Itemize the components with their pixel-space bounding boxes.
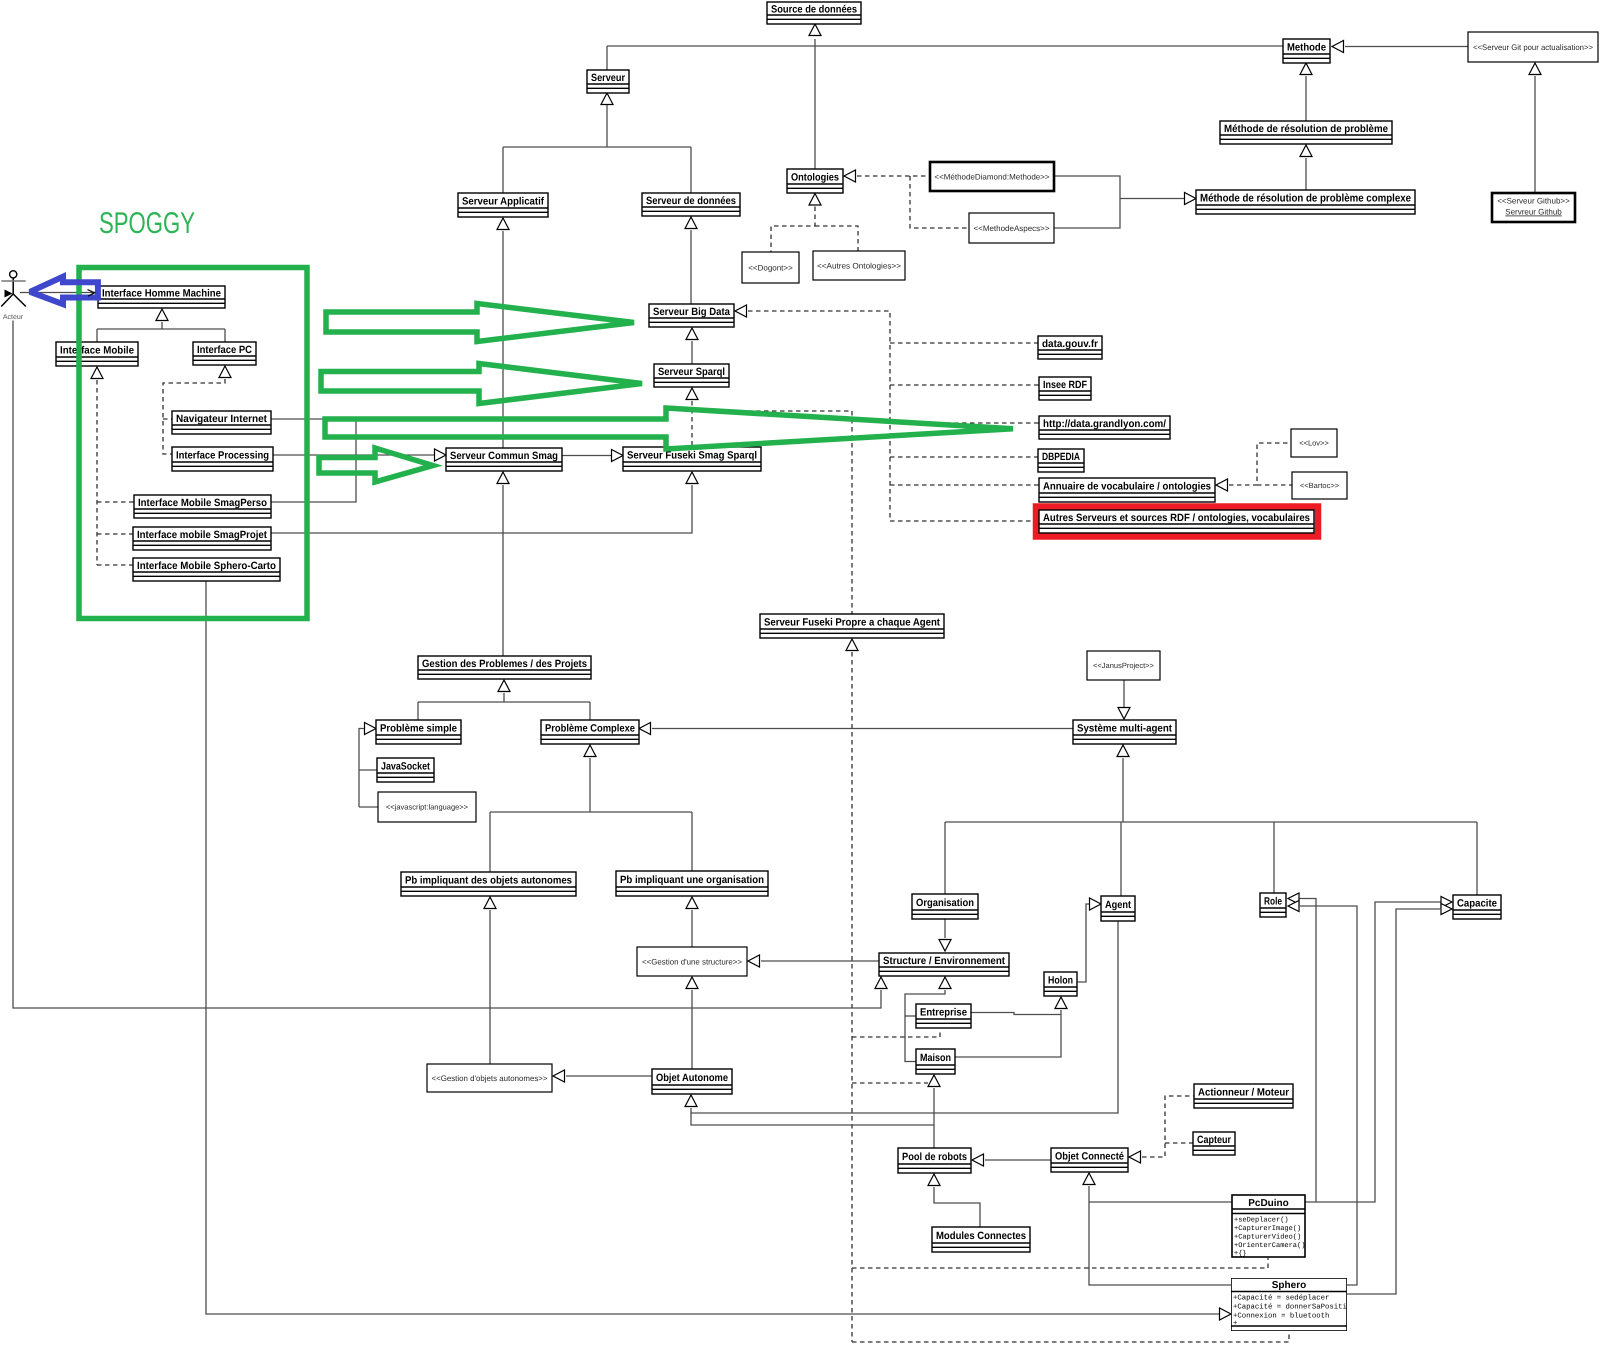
class Pb impliquant des objets autonomes (401, 872, 576, 896)
wire pbsimple-javasocket (359, 769, 377, 771)
svg-text:Serveur de données: Serveur de données (646, 195, 736, 207)
wire org-structure (944, 919, 946, 938)
wire dash-entreprise (852, 1029, 940, 1037)
svg-text:Organisation: Organisation (916, 897, 974, 909)
class Maison (916, 1049, 955, 1074)
wire gestion-bus4 (589, 702, 591, 720)
wire objautonome-gestobj (566, 1075, 652, 1077)
class Entreprise (916, 1004, 971, 1028)
svg-text:Interface Processing: Interface Processing (176, 449, 269, 461)
wire gestion-bus3 (417, 702, 419, 720)
box MéthodeDiamond (930, 162, 1054, 191)
class Source de données (767, 2, 861, 24)
svg-text:+{}: +{} (1234, 1249, 1247, 1258)
wire annuaire-bartoc (1257, 484, 1292, 486)
arrowhead at Agent left (1090, 898, 1102, 910)
arrowhead at Sphero left (1220, 1308, 1232, 1320)
wire gestion-bus (503, 693, 505, 702)
arrowhead at MRPC left (1185, 193, 1197, 205)
arrowhead at Gestion objets right (553, 1070, 565, 1082)
svg-text:Interface PC: Interface PC (197, 344, 252, 356)
svg-text:+Connexion = bluetooth: +Connexion = bluetooth (1233, 1312, 1329, 1321)
arrowhead under Ontologies (809, 194, 821, 206)
class Autres Serveurs (1039, 510, 1314, 533)
wire entmaison-structure (905, 990, 945, 1062)
svg-text:+: + (1233, 1320, 1237, 1328)
svg-text:Serveur: Serveur (591, 72, 625, 84)
wire acteur-structure (13, 321, 881, 1009)
wire objconn-dash (1142, 1096, 1194, 1157)
arrowhead under Holon (1055, 997, 1067, 1009)
wire gestion-up (502, 485, 504, 656)
class Capteur (1193, 1132, 1235, 1155)
svg-text:<<Gestion d'objets autonomes>>: <<Gestion d'objets autonomes>> (432, 1074, 548, 1083)
svg-text:<<Autres Ontologies>>: <<Autres Ontologies>> (817, 261, 901, 270)
class http grandlyon (1039, 416, 1170, 439)
arrowhead under Pb organisation (686, 897, 698, 909)
class PcDuino (1232, 1195, 1305, 1258)
class Serveur Sparql (654, 364, 729, 387)
arrowhead under Serveur Big Data (686, 328, 698, 340)
svg-text:Serveur Sparql: Serveur Sparql (658, 366, 725, 378)
wire fusekipropre-down (851, 652, 853, 1342)
arrowhead at Objet Connecté right (1129, 1151, 1141, 1163)
svg-text:Ontologies: Ontologies (791, 171, 839, 183)
svg-text:<<Dogont>>: <<Dogont>> (748, 263, 793, 272)
wire pool-objautonome (691, 1113, 934, 1125)
wire serveur-up (606, 46, 608, 70)
arrowhead at Problème simple left (365, 723, 377, 735)
wire im-smagperso (97, 501, 134, 503)
arrowhead under Gestion structure (686, 977, 698, 989)
box Bartoc (1292, 472, 1347, 499)
wire agent-objautonome (691, 921, 1118, 1113)
svg-text:Pb impliquant des objets auton: Pb impliquant des objets autonomes (405, 874, 572, 886)
wire im-smagprojet (97, 533, 133, 535)
box javascript language (378, 792, 476, 822)
svg-text:<<javascript:language>>: <<javascript:language>> (386, 803, 469, 812)
wire sdd-bigdata (690, 230, 692, 304)
wire serveur-down (606, 105, 608, 147)
green arrow to Serveur Sparql (321, 364, 642, 404)
class Serveur de données (642, 193, 740, 216)
wire fuseki-sparql-dash (691, 401, 693, 447)
arrowhead at Capacite left 1 (1441, 897, 1452, 908)
class Ontologies (787, 169, 843, 193)
svg-text:Objet Connecté: Objet Connecté (1055, 1150, 1124, 1162)
box Gestion une structure (637, 947, 747, 976)
class Methode (1283, 39, 1330, 63)
svg-text:Navigateur Internet: Navigateur Internet (176, 413, 267, 425)
wire pbc-bus3 (489, 812, 491, 872)
wire communsmag-fuseki (562, 455, 611, 457)
wire pcduino-objconn (1089, 1186, 1231, 1285)
green arrow to Serveur Big Data (326, 304, 634, 342)
wire pcduino-objconn2 (1089, 1201, 1232, 1203)
wire ihm-bus2 (97, 328, 225, 330)
svg-text:Maison: Maison (920, 1052, 951, 1064)
arrowhead at Role right 2 (1288, 901, 1299, 912)
arrowhead under MRP (1300, 145, 1312, 157)
class Pool de robots (898, 1148, 971, 1173)
class Serveur Fuseki Propre a chaque Agent (760, 614, 944, 638)
svg-text:Methode: Methode (1287, 41, 1326, 53)
arrowhead under Maison (928, 1075, 940, 1087)
wire spherocarto-sphero (206, 581, 1219, 1314)
svg-text:Gestion des Problemes / des Pr: Gestion des Problemes / des Projets (422, 658, 587, 670)
actor Acteur (1, 271, 26, 321)
class DBPEDIA (1038, 449, 1084, 472)
svg-text:data.gouv.fr: data.gouv.fr (1042, 338, 1098, 350)
arrowhead under Gestion des Problemes (498, 680, 510, 692)
wire md-right (1054, 176, 1120, 228)
class Système multi-agent (1073, 720, 1176, 744)
svg-text:Autres Serveurs et sources RDF: Autres Serveurs et sources RDF / ontolog… (1043, 512, 1310, 524)
green arrow to Serveur Commun Smag (319, 448, 433, 482)
wire navigateur-right (271, 419, 356, 502)
class Serveur (587, 70, 629, 93)
class Serveur Commun Smag (446, 448, 562, 471)
wire processing-communsmag (273, 454, 434, 456)
arrowhead at Serveur Big Data right (735, 305, 747, 317)
svg-text:<<Gestion d'une structure>>: <<Gestion d'une structure>> (642, 957, 742, 966)
arrowhead under Structure left (875, 977, 887, 989)
wire holon-vert (955, 1010, 1061, 1057)
svg-text:<<Serveur Github>>: <<Serveur Github>> (1497, 197, 1570, 206)
wire sma-bus (1122, 758, 1124, 822)
wire pbsimple-left (359, 729, 364, 808)
wire ontologies-up (814, 46, 816, 169)
class Actionneur / Moteur (1194, 1084, 1293, 1108)
wire sma-bus2 (945, 821, 1477, 823)
box MethodeAspecs (969, 213, 1054, 243)
svg-text:Servreur Github: Servreur Github (1505, 208, 1562, 217)
wire ont-md-dash2 (910, 176, 969, 228)
arrowhead under Serveur de données (685, 217, 697, 229)
wire dash-dbpedia (890, 456, 1038, 458)
wire bigdata-dashbus (748, 311, 890, 521)
arrowhead at Role right 1 (1288, 893, 1299, 904)
arrowhead to Source de données (809, 24, 821, 36)
svg-text:Modules Connectes: Modules Connectes (936, 1230, 1026, 1242)
wire annuaire-lov (1229, 443, 1291, 485)
wire bus-sources (607, 45, 1283, 47)
svg-text:Agent: Agent (1105, 899, 1131, 911)
class Serveur Big Data (649, 304, 734, 327)
wire fusekipropre-dash (692, 411, 852, 614)
class Objet Autonome (652, 1069, 732, 1094)
arrowhead under Serveur Commun Smag (497, 472, 509, 484)
svg-text:Serveur Commun Smag: Serveur Commun Smag (450, 450, 558, 462)
wire bus-serveur (503, 146, 691, 148)
wire ihm-bus4 (224, 329, 226, 342)
wire gestion-bus2 (418, 701, 590, 703)
red highlight rectangle (1036, 507, 1318, 537)
arrowhead at Capacite left 2 (1441, 904, 1452, 915)
arrowhead under Interface Mobile (91, 367, 103, 379)
arrowhead at Ontologies right (844, 170, 856, 182)
class Capacite (1453, 895, 1501, 919)
arrowhead under Serveur Applicatif (497, 218, 509, 230)
class Interface Mobile SmagPerso (134, 495, 271, 518)
wire im-dash (96, 380, 98, 565)
arrowhead under Problème Complexe (584, 745, 596, 757)
class Interface Mobile Sphero-Carto (133, 558, 280, 581)
class Role (1260, 893, 1286, 917)
svg-text:Problème simple: Problème simple (380, 722, 457, 734)
svg-text:+Capacité = donnerSaPosition: +Capacité = donnerSaPosition (1233, 1303, 1356, 1312)
class Modules Connectes (932, 1227, 1030, 1252)
wire sma-capacite (1476, 822, 1478, 895)
class Structure / Environnement (879, 953, 1009, 976)
svg-text:Interface Mobile SmagPerso: Interface Mobile SmagPerso (138, 497, 267, 509)
svg-text:<<JanusProject>>: <<JanusProject>> (1093, 661, 1154, 670)
class Interface Processing (172, 447, 273, 471)
arrowhead at Problème Complexe right (639, 723, 651, 735)
svg-text:Insee RDF: Insee RDF (1043, 379, 1087, 391)
svg-text:Structure / Environnement: Structure / Environnement (883, 955, 1005, 967)
svg-text:Role: Role (1264, 895, 1282, 907)
arrowhead under Pool de robots (928, 1174, 940, 1186)
wire pborg-geststruct (691, 910, 693, 947)
svg-text:Sphero: Sphero (1272, 1280, 1306, 1291)
arrowhead under Interface PC (219, 366, 231, 378)
class Pb impliquant une organisation (616, 871, 768, 896)
arrowhead under Objet Connecté (1083, 1173, 1095, 1185)
svg-text:Serveur Fuseki Smag Sparql: Serveur Fuseki Smag Sparql (627, 449, 757, 461)
wire dash-autres (890, 520, 1034, 522)
arrowhead under Serveur (601, 93, 613, 105)
class Problème Complexe (541, 720, 639, 744)
class Interface Mobile (56, 342, 138, 366)
wire bus-serveur3 (690, 147, 692, 193)
svg-text:JavaSocket: JavaSocket (381, 760, 430, 772)
svg-text:Méthode de résolution de probl: Méthode de résolution de problème comple… (1200, 193, 1411, 205)
wire dash-grandlyon (890, 422, 1039, 424)
wire dash-sphero (852, 1332, 1289, 1342)
class Agent (1101, 896, 1135, 921)
wire entreprise-structure (905, 1015, 916, 1017)
wire mrpc-up (1305, 158, 1307, 190)
class Interface PC (193, 342, 256, 365)
wire pbc-bus2 (490, 811, 692, 813)
svg-text:Pool de robots: Pool de robots (902, 1151, 967, 1163)
arrowhead at Serveur Commun Smag left (435, 449, 447, 461)
svg-text:http://data.grandlyon.com/: http://data.grandlyon.com/ (1043, 418, 1166, 430)
wire ont-md-dash (857, 175, 930, 177)
class data.gouv.fr (1038, 336, 1102, 359)
box Gestion objets autonomes (427, 1064, 552, 1092)
arrowhead under Methode (1300, 63, 1312, 75)
svg-text:Problème Complexe: Problème Complexe (545, 722, 635, 734)
svg-text:<<MéthodeDiamond:Methode>>: <<MéthodeDiamond:Methode>> (934, 172, 1050, 181)
arrowhead under Serveur Sparql (686, 388, 698, 400)
class Navigateur Internet (172, 411, 271, 434)
svg-text:+Capacité = sedéplacer: +Capacité = sedéplacer (1233, 1294, 1329, 1303)
wire sma-role (1273, 822, 1275, 893)
svg-text:<<Bartoc>>: <<Bartoc>> (1300, 481, 1340, 490)
svg-text:Source de données: Source de données (771, 3, 857, 15)
box Lov (1291, 429, 1337, 457)
arrowhead at Serveur Fuseki Smag left (612, 450, 624, 462)
svg-text:Système multi-agent: Système multi-agent (1077, 722, 1172, 734)
wire ont-autresont (815, 226, 858, 251)
wire pbobj-gestobj (489, 910, 491, 1064)
svg-text:Méthode de résolution de probl: Méthode de résolution de problème (1224, 123, 1388, 135)
wire dash-annuaire (890, 484, 1039, 486)
wire dash-datagouv (890, 342, 1038, 344)
arrowhead under Serveur Git pour actualisation (1529, 63, 1541, 75)
class Méthode de résolution de problème complexe (1196, 190, 1415, 214)
svg-text:Actionneur / Moteur: Actionneur / Moteur (1198, 1086, 1289, 1098)
wire janus-sma (1123, 680, 1125, 707)
wire sma-pbcomplexe (652, 728, 1073, 730)
wire sourcededonnees-tri-stub (814, 39, 816, 46)
wire ont-dogont (771, 207, 815, 253)
svg-text:Pb impliquant une organisation: Pb impliquant une organisation (620, 874, 764, 886)
box Dogont (742, 252, 799, 283)
svg-text:DBPEDIA: DBPEDIA (1042, 451, 1080, 463)
class Objet Connecté (1051, 1148, 1128, 1172)
small open arrow on Acteur-IHM association (88, 290, 95, 297)
class Serveur Applicatif (458, 193, 548, 217)
wire pcduino-role (1305, 902, 1441, 1202)
wire structure-geststruct (761, 960, 879, 962)
box Serveur Git pour actualisation (1468, 32, 1598, 62)
wire pbsimple-js (359, 806, 378, 808)
wire pcduino-role2 (1299, 899, 1316, 1203)
svg-text:SPOGGY: SPOGGY (99, 207, 195, 240)
wire acteur-ihm (20, 292, 97, 294)
svg-text:Interface mobile SmagProjet: Interface mobile SmagProjet (137, 529, 267, 541)
svg-text:+CapturerVideo(): +CapturerVideo() (1234, 1233, 1301, 1242)
wire dash-insee (890, 384, 1039, 386)
arrowhead under SMA (1117, 745, 1129, 757)
wire dash-pcduino (852, 1258, 1268, 1268)
svg-text:Objet Autonome: Objet Autonome (656, 1072, 728, 1084)
wire objconn-capteur (1165, 1142, 1193, 1144)
wire ihm-bus3 (96, 329, 98, 342)
svg-text:Holon: Holon (1048, 974, 1073, 986)
svg-text:<<MethodeAspecs>>: <<MethodeAspecs>> (973, 224, 1049, 233)
wire smagprojet-fuseki (271, 485, 692, 533)
wire mrp-up (1305, 76, 1307, 121)
class Insee RDF (1039, 377, 1091, 400)
box Autres Ontologies (813, 251, 905, 280)
wire im-spherocarto (97, 564, 133, 566)
svg-text:Serveur Big Data: Serveur Big Data (653, 306, 730, 318)
svg-text:Interface Mobile Sphero-Carto: Interface Mobile Sphero-Carto (137, 560, 276, 572)
wire bus-serveur2 (502, 147, 504, 193)
green arrow to http data.grandlyon (325, 408, 1013, 449)
arrowhead under Serveur Fuseki Propre (846, 639, 858, 651)
wire sparql-bigdata (691, 341, 693, 364)
arrowhead at SMA top (1118, 708, 1130, 720)
arrowhead under Serveur Fuseki Smag (686, 472, 698, 484)
wire applicatif-communsmag (502, 231, 504, 448)
wire modules-pool (934, 1187, 980, 1227)
wire sma-agent (1120, 822, 1122, 896)
wire holon-agent (1077, 904, 1089, 982)
svg-text:Entreprise: Entreprise (920, 1006, 967, 1018)
class Serveur Fuseki Smag Sparql (623, 447, 761, 471)
svg-text:Interface Homme Machine: Interface Homme Machine (102, 287, 221, 299)
svg-text:Annuaire de vocabulaire / onto: Annuaire de vocabulaire / ontologies (1043, 480, 1211, 492)
arrowhead at Methode right (1332, 41, 1344, 53)
class Méthode de résolution de problème (1220, 121, 1392, 144)
wire dash-maison (852, 1082, 928, 1084)
class Organisation (912, 894, 978, 919)
svg-text:+OrienterCamera(): +OrienterCamera() (1234, 1241, 1305, 1250)
class Interface mobile SmagProjet (133, 527, 271, 550)
svg-text:<<Serveur Git pour actualisati: <<Serveur Git pour actualisation>> (1473, 43, 1593, 52)
svg-text:Capteur: Capteur (1197, 1134, 1231, 1146)
svg-text:+CapturerImage(): +CapturerImage() (1234, 1224, 1301, 1233)
wire entreprise-holon (971, 1013, 1061, 1015)
green rectangle around interfaces (79, 268, 307, 619)
class Interface Homme Machine (98, 286, 225, 308)
class Problème simple (376, 720, 461, 744)
class Holon (1044, 972, 1077, 996)
wire ipc-dash (163, 379, 225, 454)
class Gestion des Problemes / des Projets (418, 656, 591, 679)
arrowhead at Annuaire right (1216, 479, 1228, 491)
wire sphero-capacite (1347, 909, 1441, 1294)
svg-text:Capacite: Capacite (1457, 897, 1497, 909)
wire github-up (1534, 76, 1536, 193)
arrowhead at Pool right (972, 1154, 984, 1166)
svg-text:Interface Mobile: Interface Mobile (60, 344, 134, 356)
arrowhead under IHM (156, 309, 168, 321)
wire pbc-bus (589, 758, 591, 812)
class Annuaire de vocabulaire / ontologies (1039, 478, 1215, 502)
arrowhead at Gestion structure right (748, 955, 760, 967)
wire git-to-methode (1345, 46, 1468, 48)
wire md-branch (1120, 198, 1184, 200)
wire objautonome-geststruct (691, 990, 693, 1069)
box Serveur Github (1492, 193, 1575, 222)
box JanusProject (1087, 651, 1160, 680)
blue arrow to Acteur (30, 277, 98, 305)
wire sma-org (944, 822, 946, 894)
arrowhead under Structure right (939, 977, 951, 989)
arrowhead at Structure top (939, 940, 951, 952)
svg-text:Acteur: Acteur (3, 314, 24, 321)
svg-text:<<Lov>>: <<Lov>> (1299, 439, 1329, 448)
wire maison-pool (933, 1088, 935, 1148)
svg-text:+seDeplacer(): +seDeplacer() (1234, 1216, 1289, 1225)
wire objconn-pool (985, 1159, 1051, 1161)
wire pbc-bus4 (691, 812, 693, 871)
svg-text:Serveur Fuseki Propre a chaque: Serveur Fuseki Propre a chaque Agent (764, 616, 940, 628)
wire sphero-role (1299, 906, 1357, 1285)
svg-text:PcDuino: PcDuino (1248, 1198, 1289, 1209)
wire ihm-bus (161, 322, 163, 329)
class JavaSocket (377, 758, 434, 782)
arrowhead under Objet Autonome (685, 1095, 697, 1107)
wire ipc-navigateur (163, 418, 172, 420)
svg-text:Serveur Applicatif: Serveur Applicatif (462, 195, 544, 207)
arrowhead under Pb objets autonomes (484, 897, 496, 909)
